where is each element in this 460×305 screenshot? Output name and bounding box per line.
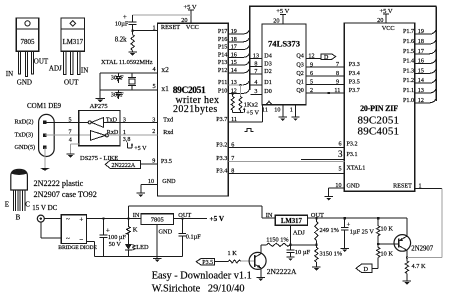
svg-text:P3.3: P3.3 xyxy=(349,62,360,68)
wire AP275 pin1 gray to writer Rxd xyxy=(120,129,158,136)
svg-text:2N2222 plastic: 2N2222 plastic xyxy=(34,179,84,188)
svg-text:P3.4: P3.4 xyxy=(216,168,227,174)
svg-text:GND: GND xyxy=(17,79,32,87)
svg-text:P12: P12 xyxy=(218,68,227,74)
node 2N2222A tag to writer P3.5 xyxy=(105,159,157,169)
svg-text:6: 6 xyxy=(338,142,341,148)
wire D1 tap xyxy=(251,80,272,86)
svg-text:20: 20 xyxy=(377,17,383,24)
svg-text:10 K: 10 K xyxy=(381,225,394,232)
svg-text:P3.5: P3.5 xyxy=(349,79,360,85)
svg-text:AP275: AP275 xyxy=(90,103,108,110)
svg-text:P1.3: P1.3 xyxy=(403,68,414,74)
svg-text:30pF: 30pF xyxy=(111,91,124,98)
wire jack sleeve to bridge lower input xyxy=(41,222,62,238)
svg-text:7: 7 xyxy=(254,69,257,75)
svg-text:Rxd: Rxd xyxy=(163,130,173,136)
bus left vertical xyxy=(249,6,251,90)
wire ZIF GND pin 10 xyxy=(325,183,345,201)
svg-text:D3: D3 xyxy=(264,61,271,67)
title text xyxy=(152,271,252,295)
IC U4 AP275 level converter box xyxy=(79,103,120,146)
svg-text:P11: P11 xyxy=(218,80,227,86)
svg-text:D0: D0 xyxy=(264,89,271,95)
svg-text:K: K xyxy=(133,227,138,234)
svg-text:9: 9 xyxy=(336,79,339,85)
wire reset node to pin 1 xyxy=(132,25,158,32)
wire P3.3 long gray (writer pin7 to ZIF pin3) xyxy=(216,149,344,162)
wire bridge + output rail xyxy=(86,218,140,220)
svg-text:8: 8 xyxy=(254,61,257,67)
svg-text:Easy - Downloader v1.1: Easy - Downloader v1.1 xyxy=(152,271,252,282)
wire writer GND pin 10 xyxy=(137,179,158,197)
wire ZIF P1.7 stub and ramp xyxy=(415,29,437,35)
svg-text:1µF 25 V: 1µF 25 V xyxy=(350,228,375,235)
svg-text:LED: LED xyxy=(136,244,149,251)
svg-text:7805: 7805 xyxy=(21,38,36,46)
node 15V DC power jack xyxy=(32,204,57,222)
svg-text:P14: P14 xyxy=(218,52,227,58)
svg-text:2021bytes: 2021bytes xyxy=(173,104,218,115)
svg-text:P3.2: P3.2 xyxy=(216,143,227,149)
wire ZIF P1.1 stub xyxy=(415,88,437,94)
svg-text:C: C xyxy=(25,200,30,208)
svg-text:30pF: 30pF xyxy=(111,74,124,81)
svg-text:~: ~ xyxy=(66,216,70,224)
capacitor 30pF lower xyxy=(111,90,124,99)
svg-text:11: 11 xyxy=(334,88,340,94)
svg-text:P3.2: P3.2 xyxy=(347,142,358,148)
ground at crystal xyxy=(96,98,105,102)
pulse waveform symbol xyxy=(245,128,254,131)
svg-text:RESET: RESET xyxy=(393,183,412,189)
svg-text:P1.5: P1.5 xyxy=(403,49,414,55)
svg-text:+5 V: +5 V xyxy=(246,110,259,117)
svg-text:P10: P10 xyxy=(218,88,227,94)
wire P10 stub xyxy=(228,88,250,94)
svg-text:TxD(3): TxD(3) xyxy=(15,132,34,139)
svg-text:GND(5): GND(5) xyxy=(15,144,36,151)
svg-text:LM317: LM317 xyxy=(63,39,84,46)
svg-text:5: 5 xyxy=(338,166,341,172)
svg-text:IN: IN xyxy=(6,70,13,78)
regulator 7805 package (TO-220 pictorial) xyxy=(6,18,49,87)
svg-text:P1.2: P1.2 xyxy=(403,78,414,84)
svg-text:+5 V: +5 V xyxy=(210,215,225,223)
bus right vertical xyxy=(435,6,437,101)
svg-text:VCC: VCC xyxy=(186,24,199,31)
+5V supply symbol at writer xyxy=(183,4,196,24)
svg-text:COM1 DE9: COM1 DE9 xyxy=(27,102,62,110)
svg-text:OUT: OUT xyxy=(178,212,191,219)
writer chip right-side pin labels P17..P10 xyxy=(218,29,237,94)
svg-text:RESET: RESET xyxy=(161,24,180,31)
svg-text:E: E xyxy=(5,200,9,208)
svg-text:DS275 - LIKE: DS275 - LIKE xyxy=(80,155,118,162)
wire AP275 pin4 to ground xyxy=(66,138,79,158)
svg-text:Txd: Txd xyxy=(163,117,173,123)
regulator 7805 box xyxy=(133,212,192,236)
wire Q0 to ZIF pin 11 xyxy=(306,88,344,94)
wire DE9 shell ground xyxy=(40,147,49,170)
+5V symbol at ZIF xyxy=(379,8,392,23)
svg-text:B: B xyxy=(16,213,21,221)
resistor 4.7K xyxy=(405,256,426,280)
wire P16 stub xyxy=(228,36,250,42)
svg-text:IN: IN xyxy=(266,212,273,219)
svg-text:P3.5: P3.5 xyxy=(161,159,172,165)
svg-text:2N2222A: 2N2222A xyxy=(112,163,136,169)
wire 74LS373 GND pin 10 xyxy=(279,105,287,121)
svg-text:D: D xyxy=(364,266,369,273)
74LS373 Q pin labels xyxy=(296,54,314,94)
wire Q3 to ZIF pin 7 xyxy=(306,62,344,68)
svg-text:P1.0: P1.0 xyxy=(403,98,414,104)
svg-text:P16: P16 xyxy=(218,37,227,43)
svg-text:249 1%: 249 1% xyxy=(320,227,340,234)
svg-text:20: 20 xyxy=(181,17,187,24)
wire P17 stub and bus ramp xyxy=(228,29,250,35)
svg-text:IN: IN xyxy=(81,67,88,75)
svg-text:4: 4 xyxy=(254,80,257,86)
svg-text:3150 1%: 3150 1% xyxy=(320,251,343,258)
svg-text:13: 13 xyxy=(253,54,259,60)
svg-text:x2: x2 xyxy=(161,65,169,74)
svg-text:GND: GND xyxy=(159,229,173,236)
wire bridge - output to ground rail xyxy=(86,241,94,256)
svg-text:P3.3: P3.3 xyxy=(216,156,227,162)
svg-text:+5 V: +5 V xyxy=(134,146,147,152)
svg-text:3: 3 xyxy=(152,117,155,123)
resistor 10K lower xyxy=(377,243,394,268)
IC U2 74LS373 latch body xyxy=(262,18,306,105)
svg-text:P1.7: P1.7 xyxy=(403,29,414,35)
svg-text:OUT: OUT xyxy=(34,58,49,66)
wire P11 stub (gray) xyxy=(228,79,250,85)
svg-text:D: D xyxy=(324,55,329,61)
svg-text:8: 8 xyxy=(336,71,339,77)
diode bridge rectifier xyxy=(58,215,97,251)
svg-text:2N2222A: 2N2222A xyxy=(267,267,297,276)
svg-text:5: 5 xyxy=(152,83,155,90)
svg-text:5: 5 xyxy=(69,117,72,123)
wire P12 stub xyxy=(228,68,250,74)
wire 7805 GND pin down xyxy=(156,225,158,257)
svg-text:D2: D2 xyxy=(264,69,271,75)
capacitor 0.1uF xyxy=(179,218,202,257)
svg-text:1: 1 xyxy=(152,25,155,32)
svg-text:P1.1: P1.1 xyxy=(403,88,414,94)
svg-text:P1.6: P1.6 xyxy=(403,39,414,45)
wire crystal ground leg xyxy=(99,73,101,98)
wire X2 pin 4 xyxy=(100,66,157,73)
node P3.5 tag xyxy=(196,258,214,266)
wire ZIF P1.6 stub xyxy=(415,39,437,45)
resistor 249 1% xyxy=(315,217,340,245)
wire ZIF P1.5 stub xyxy=(415,48,437,54)
ZIF right pin labels P1.7..P1.0 xyxy=(403,29,424,104)
svg-text:LM317: LM317 xyxy=(281,218,303,225)
svg-text:P15: P15 xyxy=(218,45,227,51)
regulator LM317 package (TO-220 pictorial) xyxy=(49,18,88,87)
ZIF left pin labels xyxy=(347,62,413,189)
svg-text:IN: IN xyxy=(133,212,140,219)
svg-text:P3.4: P3.4 xyxy=(349,71,360,77)
node COM1 DE9 connector xyxy=(15,102,62,157)
wire P13 stub xyxy=(228,60,250,65)
ground at 7805 xyxy=(153,256,161,262)
svg-text:P3.1: P3.1 xyxy=(347,152,358,158)
+5V symbol at 74LS373 xyxy=(276,8,289,24)
wire LM317 OUT rail xyxy=(308,217,407,219)
svg-text:2: 2 xyxy=(152,129,155,135)
wire P3.7 to 74LS373 LE xyxy=(216,105,262,123)
svg-text:1150 1%: 1150 1% xyxy=(266,237,289,244)
inverter TxD (points left with bubble) xyxy=(79,117,120,127)
svg-text:RxD: RxD xyxy=(107,130,119,136)
wire ZIF P1.4 stub xyxy=(415,58,437,64)
wire P3.2 long (writer pin6 to ZIF pin6) xyxy=(216,142,344,149)
svg-text:89C4051: 89C4051 xyxy=(358,126,400,138)
resistor 8.2k xyxy=(115,31,135,52)
svg-text:1 K: 1 K xyxy=(228,250,238,257)
svg-text:−: − xyxy=(79,236,83,244)
svg-text:D1: D1 xyxy=(264,80,271,86)
svg-text:8.2k: 8.2k xyxy=(115,36,127,43)
svg-text:Q0: Q0 xyxy=(296,88,303,94)
AP275 pins 3,8 to +5V xyxy=(123,137,147,152)
wire 74LS373 OE pin 1 xyxy=(291,105,299,121)
svg-text:GND: GND xyxy=(347,183,361,189)
wire AP275 pin3 to writer Txd xyxy=(120,117,158,123)
resistor 1K LED series xyxy=(126,218,137,235)
IC U1 89C2051 writer chip body xyxy=(158,17,229,196)
svg-text:XTAL1: XTAL1 xyxy=(347,165,366,171)
wire P15 stub xyxy=(228,44,250,50)
resistor 3150 1% xyxy=(312,245,343,271)
wire P14 stub xyxy=(228,52,250,58)
svg-text:TxD: TxD xyxy=(106,117,118,123)
svg-text:RxD(2): RxD(2) xyxy=(15,118,34,125)
svg-text:3,8: 3,8 xyxy=(123,137,131,143)
ground at 4.7K xyxy=(403,281,411,285)
wire ZIF P1.3 stub xyxy=(415,68,437,74)
svg-text:2N2907 case TO92: 2N2907 case TO92 xyxy=(34,190,97,199)
svg-text:7: 7 xyxy=(69,130,72,136)
svg-text:3: 3 xyxy=(254,89,257,95)
regulator LM317 box xyxy=(275,212,324,237)
svg-text:GND: GND xyxy=(162,179,176,185)
wire LM317 feed from raw DC xyxy=(128,206,275,219)
svg-text:50 V: 50 V xyxy=(109,241,122,248)
svg-text:74LS373: 74LS373 xyxy=(268,38,300,48)
wire P3.4 long (writer pin8 to ZIF XTAL1 pin5) xyxy=(216,166,344,174)
transistor TO-92 pictorial xyxy=(5,169,31,221)
resistor 10K upper xyxy=(377,217,394,244)
74LS373 LE pin 11 triangle and bottom pins xyxy=(262,101,293,113)
svg-text:W.Sirichote 29/10/40: W.Sirichote 29/10/40 xyxy=(152,284,245,295)
svg-text:P1.4: P1.4 xyxy=(403,59,414,65)
ground below 8.2k xyxy=(128,52,136,56)
wire D4 tap xyxy=(251,54,272,60)
svg-text:P13: P13 xyxy=(218,60,227,66)
node D tag (bottom) xyxy=(356,264,378,273)
svg-text:7805: 7805 xyxy=(151,217,164,224)
svg-text:3: 3 xyxy=(338,149,343,159)
crystal XTAL 11.0592MHz symbol xyxy=(128,73,136,90)
svg-text:2N2907: 2N2907 xyxy=(411,246,434,253)
transistor Q1 2N2222A xyxy=(241,245,297,277)
capacitor 30pF upper xyxy=(111,73,124,83)
svg-text:+: + xyxy=(79,216,83,224)
wire bottom ground rail xyxy=(95,255,183,257)
svg-text:XTAL 11.0592MHz: XTAL 11.0592MHz xyxy=(101,59,153,66)
svg-text:4.7 K: 4.7 K xyxy=(412,263,426,270)
svg-text:20-PIN ZIF: 20-PIN ZIF xyxy=(360,104,398,113)
svg-text:D4: D4 xyxy=(264,54,271,60)
svg-text:x1: x1 xyxy=(161,84,169,93)
svg-text:0.1µF: 0.1µF xyxy=(186,234,201,241)
wire Q1 to ZIF pin 9 xyxy=(306,79,344,85)
svg-text:15 V DC: 15 V DC xyxy=(32,204,57,212)
svg-text:P17: P17 xyxy=(218,29,227,35)
wire Q4 to D tag xyxy=(306,58,321,60)
capacitor 10uF at ADJ xyxy=(286,245,310,261)
svg-text:~: ~ xyxy=(66,235,70,243)
svg-text:Q4: Q4 xyxy=(296,54,303,60)
wire ZIF P1.2 stub xyxy=(415,78,437,84)
svg-text:1: 1 xyxy=(290,107,293,113)
IC U3 20-PIN ZIF socket body xyxy=(344,17,415,191)
svg-text:Q1: Q1 xyxy=(296,80,303,86)
svg-text:Q3: Q3 xyxy=(296,62,303,68)
bus top horizontal xyxy=(249,5,436,7)
wire jack tip to bridge xyxy=(44,218,61,220)
svg-text:BRIDGE DIODE: BRIDGE DIODE xyxy=(58,245,97,251)
resistor 1150 1% xyxy=(261,237,317,247)
transistor Q2 2N2907 xyxy=(378,218,434,257)
svg-text:11: 11 xyxy=(262,107,268,113)
svg-text:OUT: OUT xyxy=(64,79,79,87)
svg-text:P3.7: P3.7 xyxy=(216,117,227,123)
svg-text:Q2: Q2 xyxy=(296,71,303,77)
svg-text:4: 4 xyxy=(69,138,72,144)
capacitor 10uF reset xyxy=(115,13,137,30)
+5V symbol at 1Kx2 xyxy=(243,108,259,117)
svg-text:10 K: 10 K xyxy=(381,251,394,258)
wire ZIF RESET to 2N2907 collector xyxy=(407,183,442,257)
wire D3 tap xyxy=(251,61,272,67)
wire X1 pin 5 xyxy=(100,83,157,90)
wire Q2 to ZIF pin 8 xyxy=(306,71,344,77)
buffer RxD (points right with bubble) xyxy=(91,130,120,140)
svg-text:10: 10 xyxy=(274,107,280,113)
wire DE9 TxD gray to AP275 xyxy=(45,130,91,136)
svg-text:ADJ: ADJ xyxy=(49,65,62,73)
svg-text:20: 20 xyxy=(273,18,279,25)
svg-text:ADJ: ADJ xyxy=(293,230,305,237)
svg-text:VCC: VCC xyxy=(382,25,395,32)
wire D2 tap xyxy=(251,69,272,75)
wire D0 tap xyxy=(251,89,272,95)
wire DE9 RxD to AP275 pin5 xyxy=(45,117,79,123)
svg-text:7: 7 xyxy=(336,62,339,68)
svg-text:10 µF: 10 µF xyxy=(295,249,311,256)
capacitor 1uF 25V xyxy=(341,217,375,252)
wire LM317 ADJ pin xyxy=(290,225,292,244)
svg-text:1Kx2: 1Kx2 xyxy=(244,101,258,108)
node D tag (right) xyxy=(321,54,336,61)
capacitor 100uF 50V xyxy=(100,218,127,257)
svg-text:P3.5: P3.5 xyxy=(202,260,213,266)
svg-text:9: 9 xyxy=(152,159,155,165)
wire ZIF P1.0 stub xyxy=(415,97,437,103)
svg-text:10µF: 10µF xyxy=(115,21,129,28)
wire 7805 OUT to +5V xyxy=(174,215,225,223)
ground at 2N2222A emitter xyxy=(257,277,265,281)
wire +5V rail to reset cap xyxy=(133,14,192,16)
diode LED indicator xyxy=(125,234,149,257)
svg-text:P3.7: P3.7 xyxy=(349,88,360,94)
resistor 1K base xyxy=(214,250,240,263)
resistor 1Kx2 pull-ups xyxy=(231,84,258,113)
